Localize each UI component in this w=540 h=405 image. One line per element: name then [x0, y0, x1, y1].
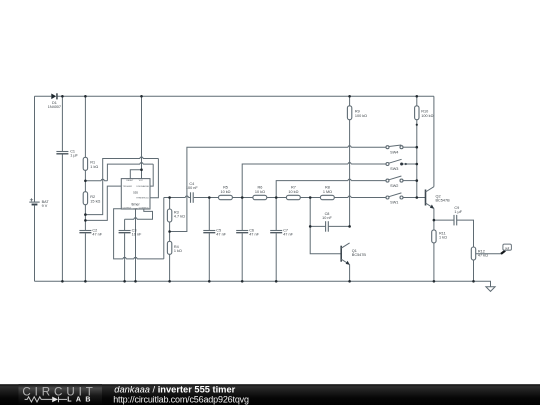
wire R12 to rail: [473, 260, 475, 281]
wire bus R5 to R6: [232, 197, 253, 199]
transistor Q2: [426, 187, 451, 209]
wire C7 riser up to SW2 row: [276, 179, 386, 197]
svg-text:SW4: SW4: [390, 150, 398, 154]
resistor R1: [83, 157, 98, 170]
wire C3 to rail: [124, 233, 126, 281]
capacitor C2: [79, 229, 102, 237]
resistor R10: [415, 96, 434, 119]
switch SW1: [386, 193, 417, 205]
wire SW1 row: [334, 196, 386, 198]
svg-text:4.7 kΩ: 4.7 kΩ: [174, 215, 185, 219]
capacitor C9: [454, 206, 463, 226]
svg-text:47 nF: 47 nF: [249, 233, 259, 237]
wire VCC riser: [141, 96, 143, 178]
wire Q2 base: [417, 197, 426, 199]
wire R10 down switch common: [416, 120, 418, 198]
diode D1: [48, 93, 61, 109]
battery BAT 9V: [29, 198, 49, 208]
svg-text:100 nF: 100 nF: [186, 186, 199, 190]
wire R11 to rail: [433, 243, 435, 281]
svg-text:DISCHARGE: DISCHARGE: [137, 185, 150, 188]
resistor R12: [471, 247, 488, 260]
svg-text:http://circuitlab.com/c56adp92: http://circuitlab.com/c56adp926tqvg: [113, 395, 249, 405]
capacitor C5: [203, 229, 226, 237]
svg-text:1 µF: 1 µF: [454, 210, 462, 214]
wire trigger net: [85, 186, 121, 220]
capacitor C1: [56, 149, 78, 157]
svg-text:15 kΩ: 15 kΩ: [90, 200, 100, 204]
capacitor C3: [119, 229, 142, 237]
capacitor C8: [322, 212, 332, 232]
wire C6 to rail: [241, 233, 243, 281]
switch SW4: [386, 145, 417, 154]
resistor R11: [432, 230, 447, 243]
wire R3/R4 junction riser to SW4 row: [170, 146, 386, 232]
wire C7 to rail: [275, 233, 277, 281]
svg-text:dankaaa / inverter 555 timer: dankaaa / inverter 555 timer: [114, 385, 235, 395]
svg-text:out: out: [505, 247, 510, 251]
wire control net to C3: [125, 209, 153, 230]
svg-text:THRESHOLD: THRESHOLD: [136, 198, 149, 200]
wire bottom rail: [35, 281, 491, 286]
wire C9 to R12: [457, 220, 474, 247]
wire C5 stub: [208, 198, 210, 231]
wire R2 to C2: [84, 205, 86, 231]
resistor R3: [167, 209, 185, 222]
wire R9 down to C8/Q1: [349, 120, 351, 227]
svg-text:100 kΩ: 100 kΩ: [421, 114, 433, 118]
wire bus R6 to R7: [267, 197, 287, 199]
wire threshold net: [85, 157, 158, 215]
wire bus R7 to R8: [300, 197, 320, 199]
svg-text:10 kΩ: 10 kΩ: [288, 190, 298, 194]
wire R3 stub: [169, 198, 171, 210]
svg-text:10 nF: 10 nF: [322, 216, 332, 220]
svg-text:47 nF: 47 nF: [216, 233, 226, 237]
wire R4 to rail: [169, 254, 171, 281]
wire bus left: [164, 196, 191, 198]
svg-text:timer: timer: [131, 203, 140, 207]
svg-text:1 kΩ: 1 kΩ: [174, 249, 182, 253]
wire emitter to C9: [434, 219, 454, 221]
wire GND stub: [135, 209, 137, 281]
svg-text:555: 555: [133, 191, 138, 195]
transistor Q1: [341, 243, 366, 281]
svg-text:R9: R9: [355, 109, 360, 113]
wire node A horizontal (R1/R2 junction to risers): [85, 179, 107, 180]
resistor R7: [286, 186, 300, 200]
svg-text:R10: R10: [421, 109, 428, 113]
resistor R2: [83, 192, 100, 205]
op-amp U1 555 timer box: [121, 179, 150, 211]
resistor R8: [320, 186, 334, 200]
capacitor C4: [186, 182, 199, 203]
ground: [486, 287, 495, 292]
svg-text:OUTPUT: OUTPUT: [123, 207, 132, 209]
svg-text:SW1: SW1: [390, 201, 398, 205]
capacitor C6: [236, 229, 259, 237]
svg-text:SW2: SW2: [390, 184, 398, 188]
svg-text:47 nF: 47 nF: [283, 233, 293, 237]
wire C8 right to Q1 collector line: [329, 225, 350, 227]
wire Q2 collector to top rail: [433, 96, 435, 186]
resistor R5: [219, 186, 233, 200]
svg-text:1 kΩ: 1 kΩ: [90, 165, 98, 169]
svg-text:RESET: RESET: [126, 180, 134, 182]
wire R1 top: [84, 96, 86, 157]
wire left rail to battery: [34, 96, 36, 202]
wire top rail right segment: [58, 95, 434, 97]
wire C5 to rail: [208, 233, 210, 281]
svg-text:10 nF: 10 nF: [132, 233, 142, 237]
svg-text:LAB: LAB: [67, 397, 95, 404]
wire top rail left segment: [35, 95, 52, 97]
svg-text:100 kΩ: 100 kΩ: [355, 114, 367, 118]
svg-text:10 kΩ: 10 kΩ: [220, 190, 230, 194]
resistor R6: [253, 186, 267, 200]
svg-text:1 MΩ: 1 MΩ: [323, 190, 332, 194]
wire battery to bottom rail: [34, 205, 36, 282]
svg-text:1 kΩ: 1 kΩ: [439, 236, 447, 240]
wire reset stub: [130, 170, 141, 179]
svg-text:TRIGGER: TRIGGER: [123, 186, 133, 188]
resistor R9: [347, 96, 367, 119]
svg-text:47 nF: 47 nF: [92, 233, 102, 237]
wire C8 left net (R7/R8 junction to C8 and Q1 base): [310, 198, 341, 254]
resistor R4: [167, 241, 182, 254]
capacitor C7: [270, 229, 293, 237]
switch SW2: [386, 176, 417, 188]
wire bus C4 to R5: [194, 197, 219, 199]
svg-text:1 µF: 1 µF: [70, 154, 78, 158]
wire C7 stub: [275, 198, 277, 231]
node out flag: [476, 244, 512, 254]
footer bar: [0, 384, 540, 405]
wire R3 to R4: [169, 222, 171, 241]
svg-text:1N4007: 1N4007: [48, 105, 61, 109]
svg-text:BC547B: BC547B: [352, 253, 367, 257]
svg-text:9 V: 9 V: [42, 204, 48, 208]
wire output net: [114, 198, 164, 259]
wire C6 stub: [241, 198, 243, 231]
wire Q2 emitter node: [433, 208, 435, 230]
svg-text:VCC: VCC: [139, 180, 144, 182]
wire R1 to R2: [84, 170, 86, 191]
svg-text:BC547B: BC547B: [436, 199, 451, 203]
wire C1 riser: [61, 96, 63, 281]
wire C2 to rail: [84, 233, 86, 281]
wire C6 riser up to SW3 row: [242, 163, 386, 198]
svg-text:SW3: SW3: [390, 167, 398, 171]
wire discharge riser: [107, 163, 153, 187]
switch SW3: [386, 159, 417, 171]
svg-text:10 kΩ: 10 kΩ: [255, 190, 265, 194]
